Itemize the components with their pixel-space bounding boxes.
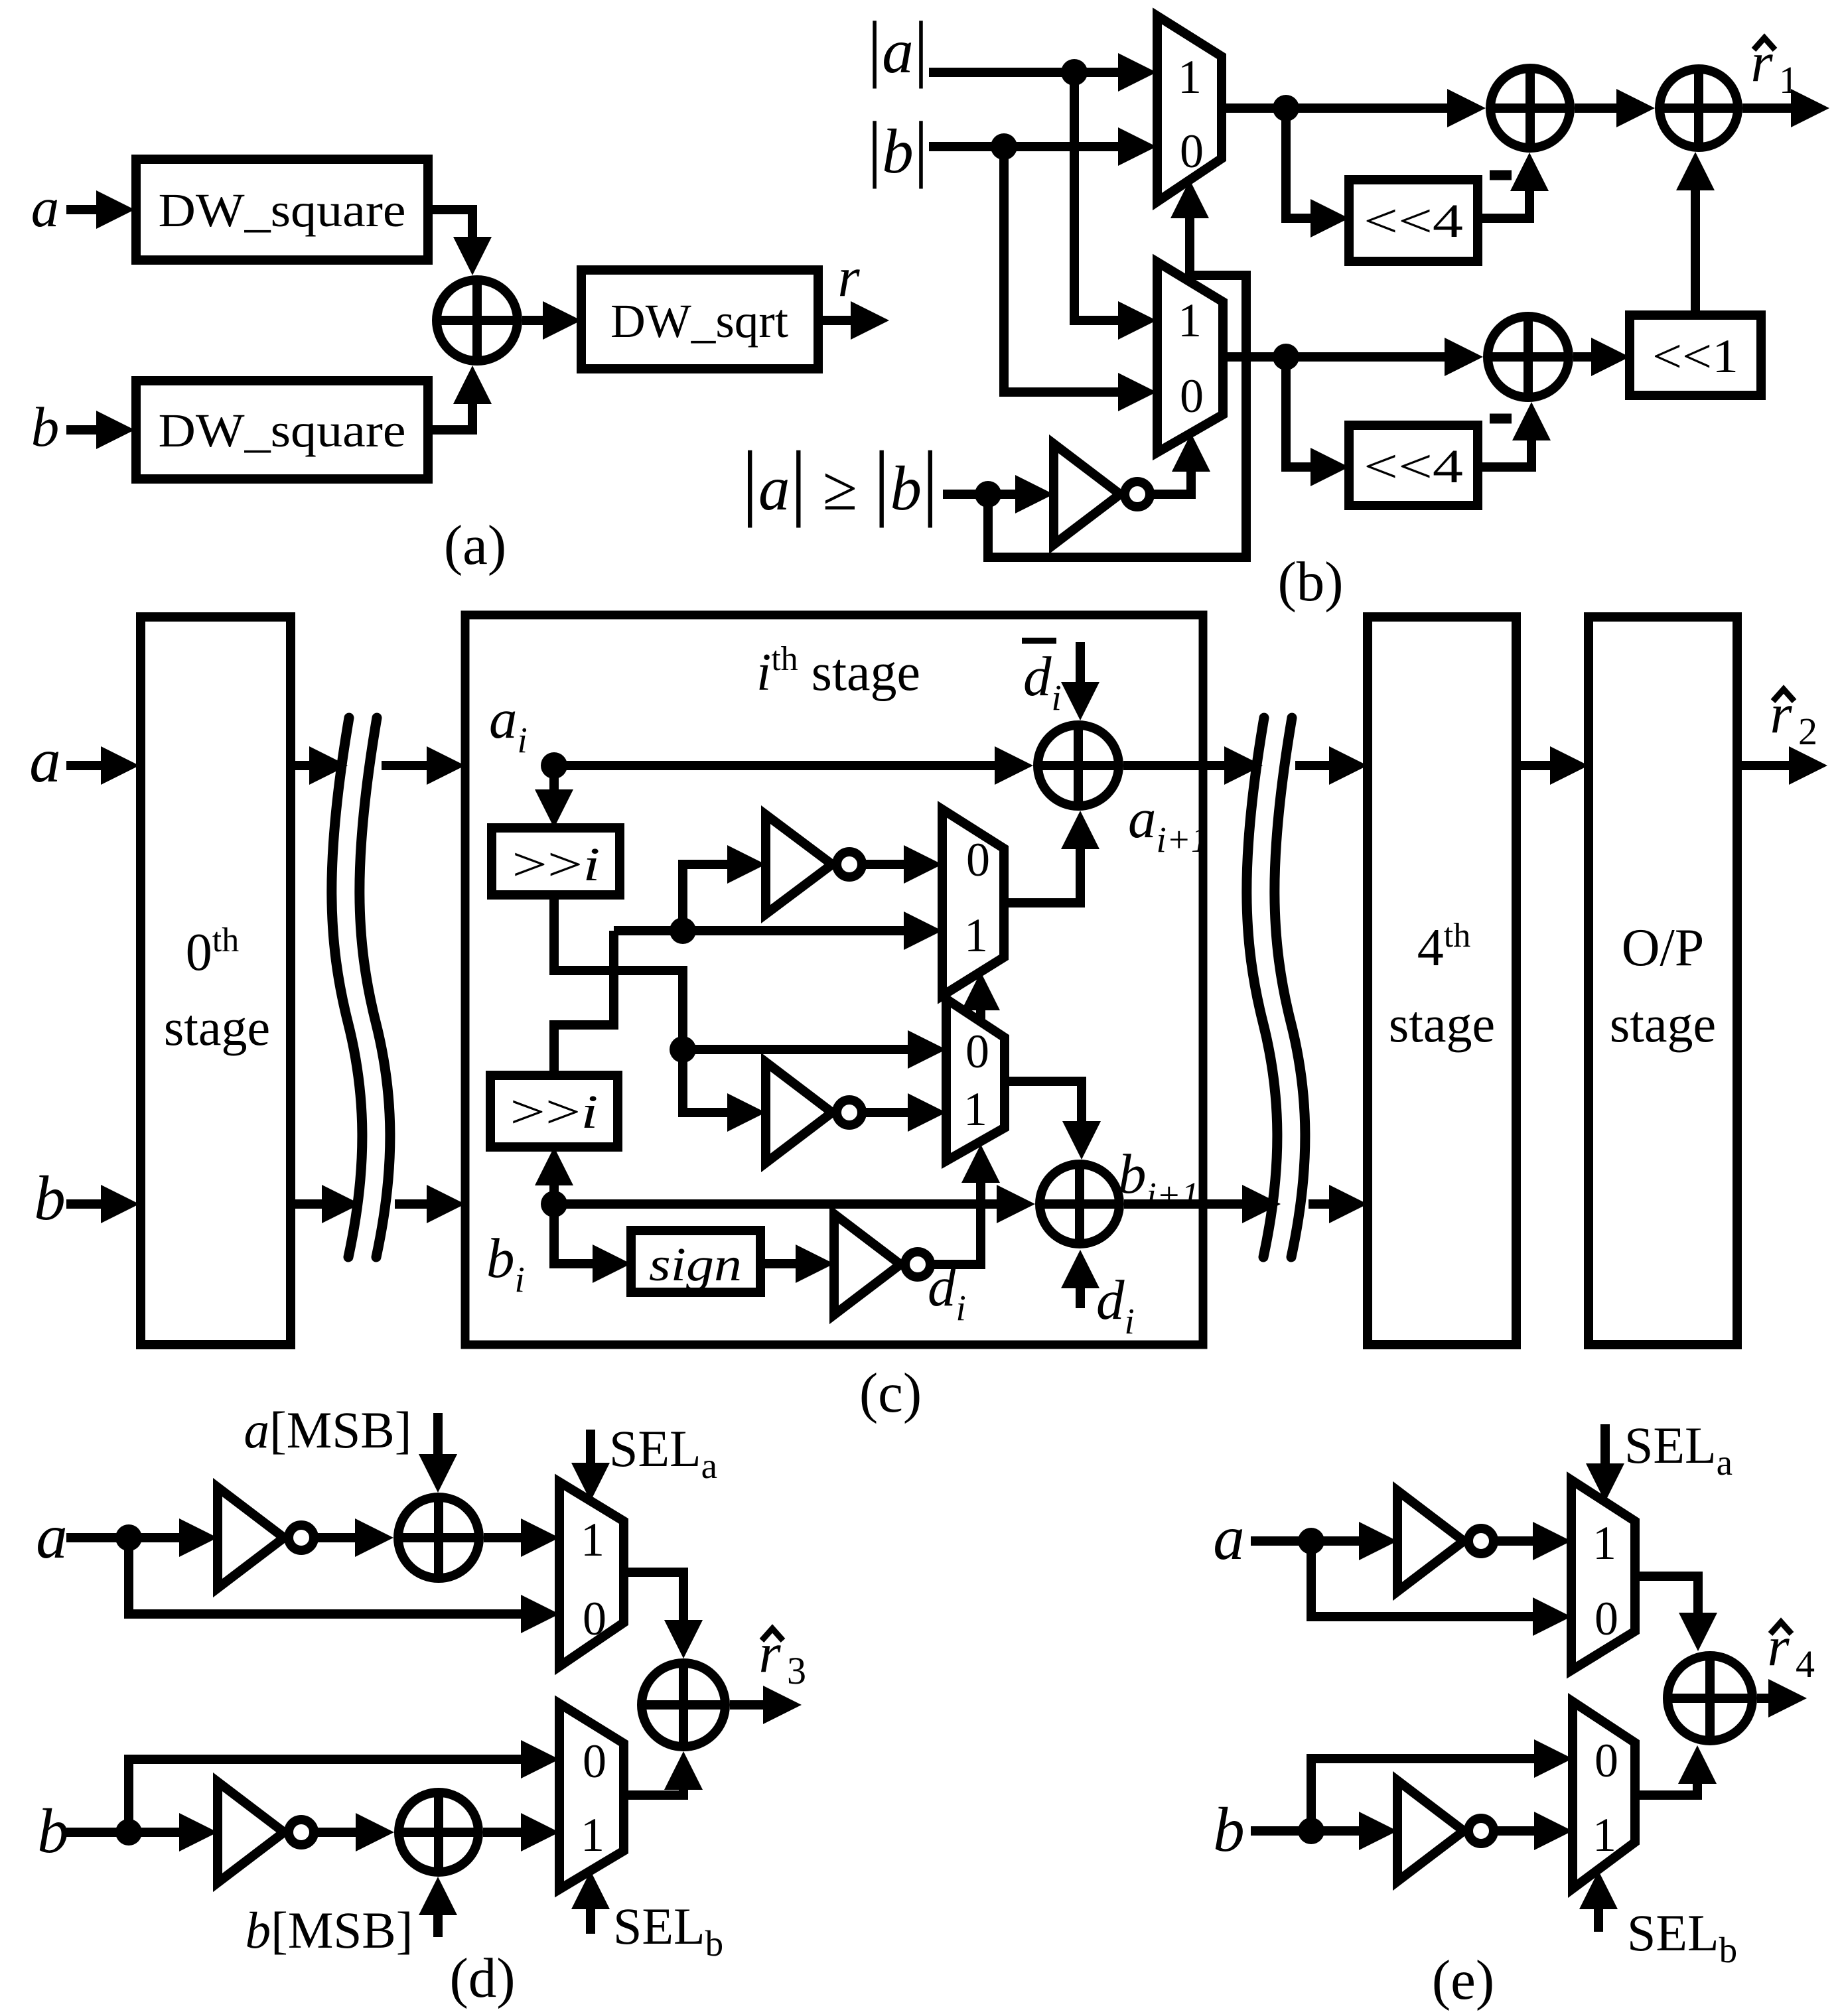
wire a_i branch down to shifter	[535, 766, 573, 828]
adder X5 a-row	[1038, 725, 1119, 806]
svg-text:|a|: |a|	[867, 7, 928, 89]
wire output r3	[730, 1686, 802, 1724]
svg-text:SELa: SELa	[1624, 1416, 1733, 1483]
wire 4th to O/P stage	[1516, 746, 1589, 785]
svg-text:0: 0	[1180, 125, 1204, 178]
svg-text:1: 1	[1178, 50, 1202, 103]
wire mux1 output	[1222, 89, 1486, 127]
wire to mux-c1 input 1	[614, 911, 942, 950]
node label a_i	[489, 688, 528, 760]
wire shifter upper out crossing	[554, 895, 683, 1049]
wire b to inverter (part d)	[66, 1813, 218, 1851]
input label a (part a)	[31, 176, 60, 239]
block DW_square upper	[136, 159, 428, 260]
wire mux2 output	[1223, 338, 1483, 376]
wire down to inverter c2	[683, 1049, 766, 1132]
wire compare input to inverter	[943, 475, 1054, 513]
inverter G6 (part d lower)	[218, 1782, 314, 1883]
node label b_i	[486, 1227, 525, 1300]
wire mux-e1 output to adder X10	[1635, 1576, 1717, 1651]
wire b_i up to shifter lower	[535, 1147, 573, 1204]
wire to mux-c2 input 0	[670, 1030, 946, 1069]
svg-text:1: 1	[963, 1083, 987, 1136]
svg-text:stage: stage	[1389, 995, 1495, 1053]
wire mux-e2 output to adder X10	[1635, 1745, 1717, 1795]
adder X7 (part d upper)	[398, 1497, 479, 1578]
block shifter <<1	[1630, 315, 1761, 395]
svg-text:(e): (e)	[1432, 1949, 1494, 2011]
wire b_i to adder X6	[541, 1185, 1035, 1223]
wire b to inverter (part e)	[1251, 1812, 1397, 1850]
svg-text:b: b	[1213, 1794, 1245, 1865]
svg-text:DW_square: DW_square	[159, 404, 406, 457]
block 0th stage	[141, 617, 291, 1345]
svg-text:sign: sign	[649, 1238, 742, 1291]
wire |a| branch to mux2 input 1	[1074, 72, 1157, 340]
subtractor X2 (part b)	[1490, 68, 1570, 148]
svg-text:<<4: <<4	[1364, 440, 1463, 493]
wire adder to DW_sqrt	[522, 301, 581, 340]
svg-text:>>i: >>i	[512, 838, 601, 891]
wire SEL_a to mux-d1 select	[571, 1430, 610, 1501]
label ith stage	[756, 640, 920, 702]
wire branch to shifter <<4 lower	[1286, 357, 1349, 486]
wire d_i input to adder X6	[1061, 1250, 1099, 1308]
caption (d)	[449, 1947, 515, 2009]
svg-text:1: 1	[1593, 1808, 1616, 1861]
caption (e)	[1432, 1949, 1494, 2011]
wire b_i down to sign block	[554, 1204, 631, 1283]
wire <<1 to adder X3	[1676, 152, 1715, 315]
svg-text:a[MSB]: a[MSB]	[244, 1401, 412, 1459]
mux M5 (part d upper)	[559, 1482, 624, 1666]
input label a (part d)	[36, 1501, 68, 1572]
svg-text:1: 1	[964, 909, 988, 962]
label SEL_a (part d)	[609, 1420, 717, 1486]
input label |a|>=|b|	[741, 434, 938, 528]
wire a[MSB] to adder X7	[419, 1413, 457, 1493]
wire break to 4th stage b-row	[1309, 1185, 1368, 1223]
break symbol left	[332, 718, 390, 1257]
wire <<4 upper to subtractor	[1478, 153, 1549, 218]
wire adder X8 to mux-d2 input 1	[483, 1813, 559, 1851]
svg-text:0: 0	[1594, 1734, 1618, 1787]
wire adder X6 to break	[1124, 1185, 1281, 1223]
adder X8 (part d lower)	[399, 1792, 478, 1872]
mux M7 (part e upper)	[1571, 1480, 1635, 1670]
svg-text:2: 2	[1798, 710, 1817, 753]
svg-text:1: 1	[1779, 58, 1798, 101]
block DW_sqrt	[581, 270, 818, 369]
svg-text:O/P: O/P	[1622, 919, 1705, 977]
wire select stub to mux-c1	[961, 972, 1000, 1022]
inverter G2 c-lower	[766, 1062, 862, 1163]
wire a bypass to mux-d1 input 0	[129, 1538, 559, 1633]
svg-text:SELa: SELa	[609, 1420, 717, 1486]
inverter G3 c-upper	[766, 815, 862, 914]
label SEL_a (part e)	[1624, 1416, 1733, 1483]
inverter G5 (part d upper)	[218, 1487, 314, 1588]
wire a_i to adder	[541, 746, 1033, 785]
caption (a)	[444, 514, 506, 576]
label SEL_b (part d)	[613, 1897, 723, 1964]
wire inverter to mux-e1 input 1	[1496, 1522, 1571, 1560]
wire output r1	[1742, 89, 1829, 127]
wire inverter c1 to mux-c1 input 0	[866, 845, 942, 884]
wire output r4	[1757, 1679, 1807, 1717]
wire a break to ith stage	[382, 746, 465, 785]
svg-text:(b): (b)	[1277, 551, 1343, 613]
output label r2 hat	[1770, 683, 1817, 753]
svg-text:b: b	[37, 1796, 69, 1866]
wire b bypass to mux-d2 input 0	[129, 1740, 559, 1832]
node label d_i left	[928, 1256, 966, 1328]
wire d_i to mux selects	[934, 1144, 1000, 1264]
block ith stage frame	[465, 615, 1203, 1345]
wire branch to shifter <<4 upper	[1286, 108, 1349, 237]
wire b[MSB] to adder X8	[419, 1877, 457, 1937]
svg-text:stage: stage	[1610, 995, 1716, 1053]
minus sign upper	[1490, 170, 1512, 180]
wire a input (part c)	[66, 746, 139, 785]
wire DW_square lower output to adder	[428, 366, 492, 430]
svg-text:0: 0	[1594, 1592, 1618, 1645]
block shifter <<4 lower	[1349, 425, 1478, 505]
wire SEL_b to mux-d2 select	[571, 1871, 610, 1934]
wire b bypass to mux-e2 input 0	[1311, 1739, 1573, 1831]
svg-text:0: 0	[583, 1735, 606, 1788]
output label r	[837, 246, 860, 308]
wire inverter to adder X7	[317, 1518, 393, 1557]
input label b (part e)	[1213, 1794, 1245, 1865]
wire inverter to mux2 select	[1154, 433, 1210, 494]
svg-text:0: 0	[1180, 370, 1204, 423]
mux M3 c-upper	[942, 809, 1004, 996]
svg-text:0: 0	[583, 1592, 606, 1645]
svg-text:a: a	[36, 1501, 68, 1572]
label b[MSB]	[246, 1901, 413, 1959]
caption (b)	[1277, 551, 1343, 613]
svg-text:1: 1	[1593, 1516, 1616, 1570]
svg-text:a: a	[31, 176, 60, 239]
input label b (part a)	[31, 396, 60, 458]
wire adder X4 to shifter <<1	[1573, 338, 1630, 376]
label SEL_b (part e)	[1627, 1904, 1737, 1970]
svg-text:3: 3	[787, 1649, 806, 1692]
node label b_i+1	[1118, 1143, 1199, 1215]
svg-text:(c): (c)	[859, 1362, 922, 1424]
label d_i bar	[1022, 641, 1062, 718]
adder X1 (part a)	[437, 280, 518, 361]
subtractor X4 (part b)	[1488, 316, 1569, 397]
wire up to inverter c1	[683, 845, 766, 931]
wire output r2	[1737, 746, 1827, 785]
wire a bypass to mux-e1 input 0	[1311, 1541, 1571, 1636]
input label |a|	[867, 7, 928, 89]
wire adder X2 to adder X3	[1575, 89, 1655, 127]
block 4th stage	[1368, 617, 1516, 1345]
caption (c)	[859, 1362, 922, 1424]
output label r1 hat	[1750, 31, 1798, 101]
wire |a| to mux1 input 1	[929, 53, 1157, 92]
break symbol right	[1247, 718, 1305, 1257]
inverter G1 (part b)	[1054, 444, 1150, 545]
wire feedback to mux1 select	[988, 180, 1246, 557]
wire break to 4th stage a-row	[1295, 746, 1368, 785]
svg-text:0: 0	[966, 833, 990, 886]
node label d_i bottom	[1096, 1269, 1135, 1341]
wire output r	[818, 301, 889, 340]
svg-text:4: 4	[1796, 1643, 1815, 1686]
mux M6 (part d lower)	[559, 1704, 624, 1889]
adder X10 (part e output)	[1667, 1656, 1752, 1741]
block O/P stage	[1589, 617, 1737, 1345]
inverter G4 sign-path	[834, 1214, 930, 1315]
svg-text:(a): (a)	[444, 514, 506, 576]
svg-text:(d): (d)	[449, 1947, 515, 2009]
block shifter >>i lower	[490, 1075, 618, 1147]
adder X6 b-row	[1040, 1164, 1119, 1244]
inverter G8 (part e lower)	[1397, 1781, 1494, 1881]
adder X3 (part b)	[1660, 69, 1738, 147]
wire inverter to mux-e2 input 1	[1496, 1812, 1573, 1850]
input label b (part d)	[37, 1796, 69, 1866]
wire shifter lower out crossing	[554, 931, 614, 1075]
svg-text:<<4: <<4	[1364, 194, 1463, 247]
mux M4 c-lower	[946, 999, 1005, 1161]
svg-text:DW_sqrt: DW_sqrt	[610, 295, 788, 348]
svg-text:0: 0	[965, 1025, 989, 1078]
svg-text:a: a	[29, 725, 61, 795]
wire b break to ith stage	[395, 1185, 465, 1223]
wire |b| to mux1 input 0	[929, 127, 1157, 166]
block shifter <<4 upper	[1349, 180, 1478, 261]
wire d_i bar input to adder	[1061, 642, 1099, 720]
wire inverter c2 to mux-c2 input 1	[866, 1093, 946, 1132]
input label a (part e)	[1213, 1503, 1245, 1573]
mux M1 (part b)	[1157, 16, 1222, 202]
wire mux-d1 output to adder X9	[624, 1572, 703, 1658]
wire SEL_a to mux-e1 select	[1586, 1424, 1624, 1502]
wire b input (part a)	[66, 411, 135, 449]
block shifter >>i upper	[492, 828, 620, 895]
svg-text:b: b	[34, 1163, 66, 1233]
wire inverter to adder X8	[317, 1813, 394, 1851]
wire sign to inverter d	[760, 1244, 834, 1283]
label a[MSB]	[244, 1401, 412, 1459]
block sign	[631, 1231, 760, 1292]
wire adder X7 to mux-d1 input 1	[484, 1518, 559, 1557]
svg-text:|b|: |b|	[867, 107, 928, 189]
svg-text:1: 1	[1178, 294, 1202, 347]
output label r4 hat	[1767, 1615, 1815, 1686]
wire b input (part c)	[66, 1185, 139, 1223]
wire a to inverter (part d)	[66, 1518, 218, 1557]
block DW_square lower	[136, 381, 428, 479]
inverter G7 (part e upper)	[1397, 1491, 1494, 1591]
svg-text:stage: stage	[164, 998, 270, 1056]
minus sign lower	[1490, 414, 1512, 424]
mux M8 (part e lower)	[1573, 1702, 1635, 1889]
wire a 0th-stage to break	[291, 746, 348, 785]
node label a_i+1	[1128, 787, 1209, 860]
wire a input (part a)	[66, 190, 135, 229]
wire mux-c1 output to adder X5	[1004, 811, 1099, 903]
wire <<4 lower to subtractor	[1478, 402, 1551, 467]
svg-text:a: a	[1213, 1503, 1245, 1573]
mux M2 (part b)	[1157, 262, 1223, 452]
svg-text:b[MSB]: b[MSB]	[246, 1901, 413, 1959]
svg-text:<<1: <<1	[1652, 330, 1738, 383]
wire mux-c2 output to adder X6	[1005, 1081, 1101, 1160]
wire adder X5 to break	[1123, 746, 1263, 785]
input label a (part c)	[29, 725, 61, 795]
svg-text:>>i: >>i	[510, 1085, 599, 1138]
svg-text:b: b	[31, 396, 60, 458]
output label r3 hat	[758, 1622, 806, 1692]
wire b 0th-stage to break	[291, 1185, 360, 1223]
wire DW_square upper output to adder	[428, 210, 492, 275]
input label b (part c)	[34, 1163, 66, 1233]
svg-text:1: 1	[581, 1808, 604, 1861]
svg-text:r: r	[837, 246, 860, 308]
svg-text:1: 1	[581, 1513, 604, 1566]
adder X9 (part d output)	[642, 1663, 725, 1747]
wire |b| branch to mux2 input 0	[1004, 147, 1157, 411]
wire a to inverter (part e)	[1251, 1522, 1397, 1560]
wire SEL_b to mux-e2 select	[1579, 1871, 1618, 1932]
input label |b| upper	[867, 107, 928, 189]
svg-text:DW_square: DW_square	[159, 184, 406, 237]
wire mux-d2 output to adder X9	[624, 1751, 703, 1795]
